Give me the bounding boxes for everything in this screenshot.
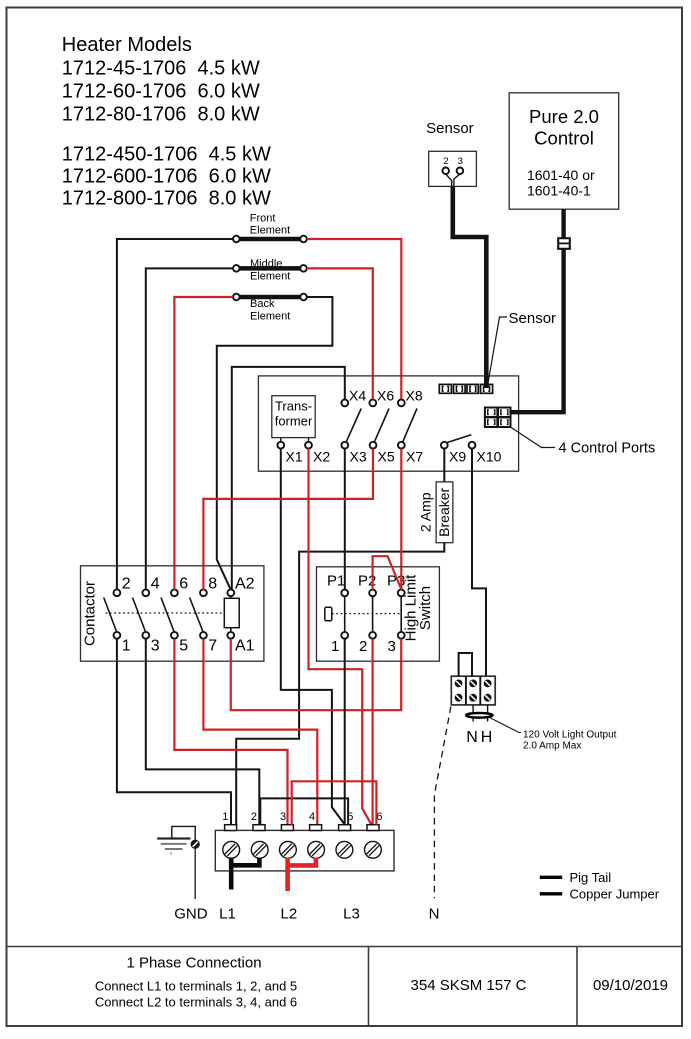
L2 pigtail: [288, 858, 316, 892]
contactor terminal A2: [227, 589, 234, 596]
copper jumper terminal 3 to 6: [292, 781, 377, 824]
wire contactor 7 to terminal 4: [203, 639, 317, 825]
board terminal X1: [277, 442, 284, 449]
board terminal X9: [441, 442, 448, 449]
svg-text:2.0 Amp Max: 2.0 Amp Max: [523, 740, 581, 751]
svg-text:X4: X4: [349, 387, 366, 403]
wire X3 to P1: [344, 449, 346, 590]
svg-text:former: former: [275, 414, 313, 429]
wire front element to contactor 2: [117, 239, 233, 588]
svg-text:8: 8: [208, 576, 217, 593]
board terminal X10: [469, 442, 476, 449]
svg-text:Copper Jumper: Copper Jumper: [570, 886, 660, 901]
svg-text:Switch: Switch: [417, 586, 434, 630]
contactor blade 8-7: [190, 598, 203, 632]
contactor terminal A1: [227, 632, 234, 639]
wire ground to GND screw: [172, 826, 195, 840]
sensor connector box: [429, 151, 477, 186]
sensor cable to board: [453, 186, 487, 384]
pig tail marker: [466, 713, 492, 718]
contactor blade 6-5: [161, 598, 174, 632]
high limit switch S1 box: [317, 567, 440, 661]
jumper J1 left to middle column: [459, 653, 472, 676]
TB1 post 2: [253, 825, 265, 831]
HLS terminal P3: [398, 590, 405, 597]
board terminal X8: [398, 400, 405, 407]
svg-text:3: 3: [458, 156, 463, 167]
switch blade X5-X6: [375, 409, 390, 442]
wire X2 to terminal 6: [309, 449, 372, 825]
wire stub front element into contactor 2: [116, 566, 118, 590]
TB1 post 6: [367, 825, 379, 831]
svg-text:6: 6: [179, 576, 188, 593]
svg-text:X2: X2: [313, 449, 330, 465]
board terminal X6: [369, 400, 376, 407]
wire GND screw down: [194, 848, 196, 899]
transformer T1: [272, 396, 315, 438]
wire contactor 1 to terminal 1: [117, 639, 231, 825]
svg-text:1712-80-1706 8.0 kW: 1712-80-1706 8.0 kW: [62, 104, 260, 126]
HLS sensing bulb: [325, 607, 332, 621]
svg-text:Contactor: Contactor: [82, 581, 99, 646]
svg-text:Back: Back: [250, 298, 275, 310]
svg-text:2: 2: [122, 576, 131, 593]
wire back element to contactor 6: [174, 297, 233, 588]
wire stub X7 into P3: [400, 567, 402, 590]
copper jumper terminal 2 to 5: [260, 798, 348, 824]
svg-text:Element: Element: [250, 224, 290, 236]
contactor terminal 6: [171, 589, 178, 596]
svg-text:2: 2: [251, 811, 257, 823]
svg-text:1712-800-1706 8.0 kW: 1712-800-1706 8.0 kW: [62, 188, 271, 210]
contactor blade 2-1: [104, 598, 117, 632]
HLS terminal 2: [369, 632, 376, 639]
svg-text:Sensor: Sensor: [426, 120, 474, 137]
switch blade X9-X10: [446, 435, 471, 443]
svg-text:P1: P1: [327, 573, 345, 590]
HLS terminal 1: [341, 632, 348, 639]
light output connector J1: [451, 676, 495, 705]
wire A2 to X4: [232, 367, 345, 590]
board terminal X2: [305, 442, 312, 449]
svg-text:Heater Models: Heater Models: [62, 34, 192, 56]
switch blade X7-X8: [403, 409, 417, 442]
wire stub front element into X8: [400, 376, 402, 399]
wire X9 to breaker: [443, 449, 445, 482]
svg-text:354 SKSM 157 C: 354 SKSM 157 C: [411, 977, 527, 994]
svg-text:X10: X10: [477, 449, 502, 465]
terminal block TB1: [215, 830, 394, 871]
board sensor connector 4 sockets: [439, 384, 492, 393]
wire stub X5 into contactor 8: [202, 566, 204, 590]
HLS contact P3-3: [400, 596, 402, 632]
wire X7 to P3: [400, 449, 402, 590]
HLS contact P1-1: [344, 596, 346, 632]
TB1 post 4: [310, 825, 322, 831]
pig tail leads below J1: [473, 705, 488, 722]
svg-text:GND: GND: [174, 906, 208, 923]
svg-text:Control: Control: [534, 128, 594, 149]
wire stub middle element into contactor 4: [145, 566, 147, 590]
contactor terminal 3: [142, 632, 149, 639]
svg-text:5: 5: [179, 638, 188, 655]
svg-text:Trans-: Trans-: [275, 399, 312, 414]
L1 pigtail: [231, 858, 259, 890]
svg-text:1601-40 or: 1601-40 or: [527, 167, 595, 183]
wire stub A2 wire into X4: [344, 376, 346, 399]
jumper P2 to P3: [373, 556, 402, 589]
contactor terminal 7: [200, 632, 207, 639]
board terminal X4: [341, 400, 348, 407]
4 control ports 2x2 block: [485, 408, 511, 428]
svg-text:120 Volt Light Output: 120 Volt Light Output: [523, 729, 617, 740]
wire contactor 3 to terminal 2: [146, 639, 259, 825]
sensor lead wires: [446, 174, 460, 186]
TB1 post 3: [281, 825, 293, 831]
HLS terminal P1: [341, 590, 348, 597]
board terminal X7: [398, 442, 405, 449]
wire back element to contactor A2: [217, 297, 333, 589]
contactor blade 4-3: [133, 598, 146, 632]
svg-text:A1: A1: [235, 638, 255, 655]
wire breaker to terminal 1: [236, 543, 444, 825]
contactor terminal 1: [114, 632, 121, 639]
120 volt light output label with leader: [490, 718, 522, 733]
back element EL3: [240, 295, 301, 300]
contactor terminal 2: [114, 589, 121, 596]
sensor cable stub into board socket: [484, 376, 489, 388]
wire HLS 1 to terminal 5: [344, 639, 346, 825]
svg-text:X8: X8: [406, 387, 423, 403]
wire stub middle element into X6: [372, 376, 374, 399]
contactor terminal 4: [142, 589, 149, 596]
svg-text:X9: X9: [449, 449, 466, 465]
svg-text:Pig Tail: Pig Tail: [570, 870, 612, 885]
svg-text:3: 3: [280, 811, 286, 823]
wire A1 to HLS 3: [231, 639, 401, 711]
svg-text:1712-600-1706 6.0 kW: 1712-600-1706 6.0 kW: [62, 166, 271, 188]
legend pig tail: [540, 876, 562, 879]
inline connector on control cable: [558, 238, 570, 249]
dashed neutral wire to N: [434, 707, 451, 899]
wire stub HLS 3 down to A1 link: [400, 639, 402, 662]
svg-text:Sensor: Sensor: [509, 310, 557, 327]
legend copper jumper: [540, 892, 562, 895]
wire contactor 5 to terminal 3: [174, 639, 287, 825]
TB1 post 5: [339, 825, 351, 831]
board terminal X3: [341, 442, 348, 449]
wire front element to X8: [307, 239, 402, 399]
svg-text:1: 1: [222, 811, 228, 823]
svg-text:2 Amp: 2 Amp: [418, 492, 434, 532]
wire stub A2 to X4 riser: [231, 566, 233, 590]
svg-text:3: 3: [151, 638, 160, 655]
wire HLS 2 to terminal 6: [372, 639, 374, 825]
2 Amp breaker CB1: [436, 482, 453, 543]
svg-text:Connect L1 to terminals 1, 2,: Connect L1 to terminals 1, 2, and 5: [95, 979, 297, 994]
svg-text:4 Control Ports: 4 Control Ports: [559, 441, 656, 457]
svg-text:09/10/2019: 09/10/2019: [593, 977, 668, 994]
wire middle element to contactor 4: [146, 268, 233, 588]
contactor coil: [224, 598, 239, 627]
svg-text:7: 7: [208, 638, 217, 655]
svg-text:4: 4: [151, 576, 160, 593]
svg-text:L1: L1: [219, 906, 236, 923]
svg-text:Element: Element: [250, 310, 290, 322]
switch blade X3-X4: [346, 409, 361, 442]
TB1 screws: [223, 841, 381, 858]
svg-text:L3: L3: [343, 906, 360, 923]
front element EL1: [240, 237, 301, 242]
middle element EL2: [240, 266, 301, 271]
HLS terminal P2: [369, 590, 376, 597]
svg-text:X3: X3: [350, 449, 367, 465]
wire X1 to terminal 5: [281, 449, 345, 825]
svg-text:H: H: [481, 729, 493, 746]
svg-text:1601-40-1: 1601-40-1: [527, 183, 591, 199]
svg-text:N: N: [429, 906, 440, 923]
svg-text:3: 3: [388, 638, 396, 655]
svg-text:1: 1: [331, 638, 339, 655]
TB1 post 1: [225, 825, 237, 831]
svg-text:1712-45-1706 4.5 kW: 1712-45-1706 4.5 kW: [62, 58, 260, 80]
contactor terminal 8: [200, 589, 207, 596]
svg-text:Element: Element: [250, 270, 290, 282]
svg-text:N: N: [466, 729, 478, 746]
GND screw: [191, 840, 199, 848]
HLS terminal 3: [398, 632, 405, 639]
svg-text:A2: A2: [235, 576, 255, 593]
wire stub back element into contactor 6: [173, 566, 175, 590]
J1 screws: [455, 680, 492, 702]
heater models text block: [62, 34, 271, 210]
ground symbol: [157, 839, 190, 854]
wire middle element to X6: [307, 268, 373, 398]
wire stub X3 into P1: [344, 567, 346, 590]
svg-text:4: 4: [309, 811, 315, 823]
control cable from Pure 2.0 to control ports: [511, 209, 564, 412]
HLS dotted link: [332, 613, 401, 615]
wire X5 to contactor 8: [203, 449, 373, 589]
contactor dotted link: [106, 612, 225, 614]
wire stub back element into A2: [220, 566, 231, 589]
svg-text:X7: X7: [406, 449, 423, 465]
sensor leader stub inside board: [488, 376, 489, 384]
svg-text:X5: X5: [378, 449, 395, 465]
svg-text:2: 2: [443, 156, 448, 167]
control cable stub into top-right port: [511, 410, 520, 414]
svg-text:Front: Front: [250, 212, 276, 224]
svg-text:X1: X1: [286, 449, 303, 465]
svg-text:1712-60-1706 6.0 kW: 1712-60-1706 6.0 kW: [62, 81, 260, 103]
contactor K1 box: [81, 566, 264, 661]
svg-text:Connect L2 to terminals 3, 4,: Connect L2 to terminals 3, 4, and 6: [95, 995, 297, 1010]
svg-text:1 Phase Connection: 1 Phase Connection: [126, 955, 261, 972]
svg-text:Pure 2.0: Pure 2.0: [529, 106, 599, 127]
Pure 2.0 Control box U1: [509, 93, 619, 209]
wire X10 to light connector: [472, 449, 486, 677]
svg-text:1712-450-1706 4.5 kW: 1712-450-1706 4.5 kW: [62, 144, 271, 166]
svg-text:1: 1: [122, 638, 131, 655]
contactor terminal 5: [171, 632, 178, 639]
board terminal X5: [370, 442, 377, 449]
HLS contact P2-2: [372, 596, 374, 632]
svg-text:2: 2: [359, 638, 367, 655]
4 control ports label with leader: [511, 427, 555, 447]
title block: [7, 947, 683, 1027]
control board box: [258, 376, 518, 471]
svg-text:X6: X6: [377, 387, 394, 403]
svg-text:Breaker: Breaker: [436, 487, 452, 536]
svg-text:L2: L2: [281, 906, 298, 923]
